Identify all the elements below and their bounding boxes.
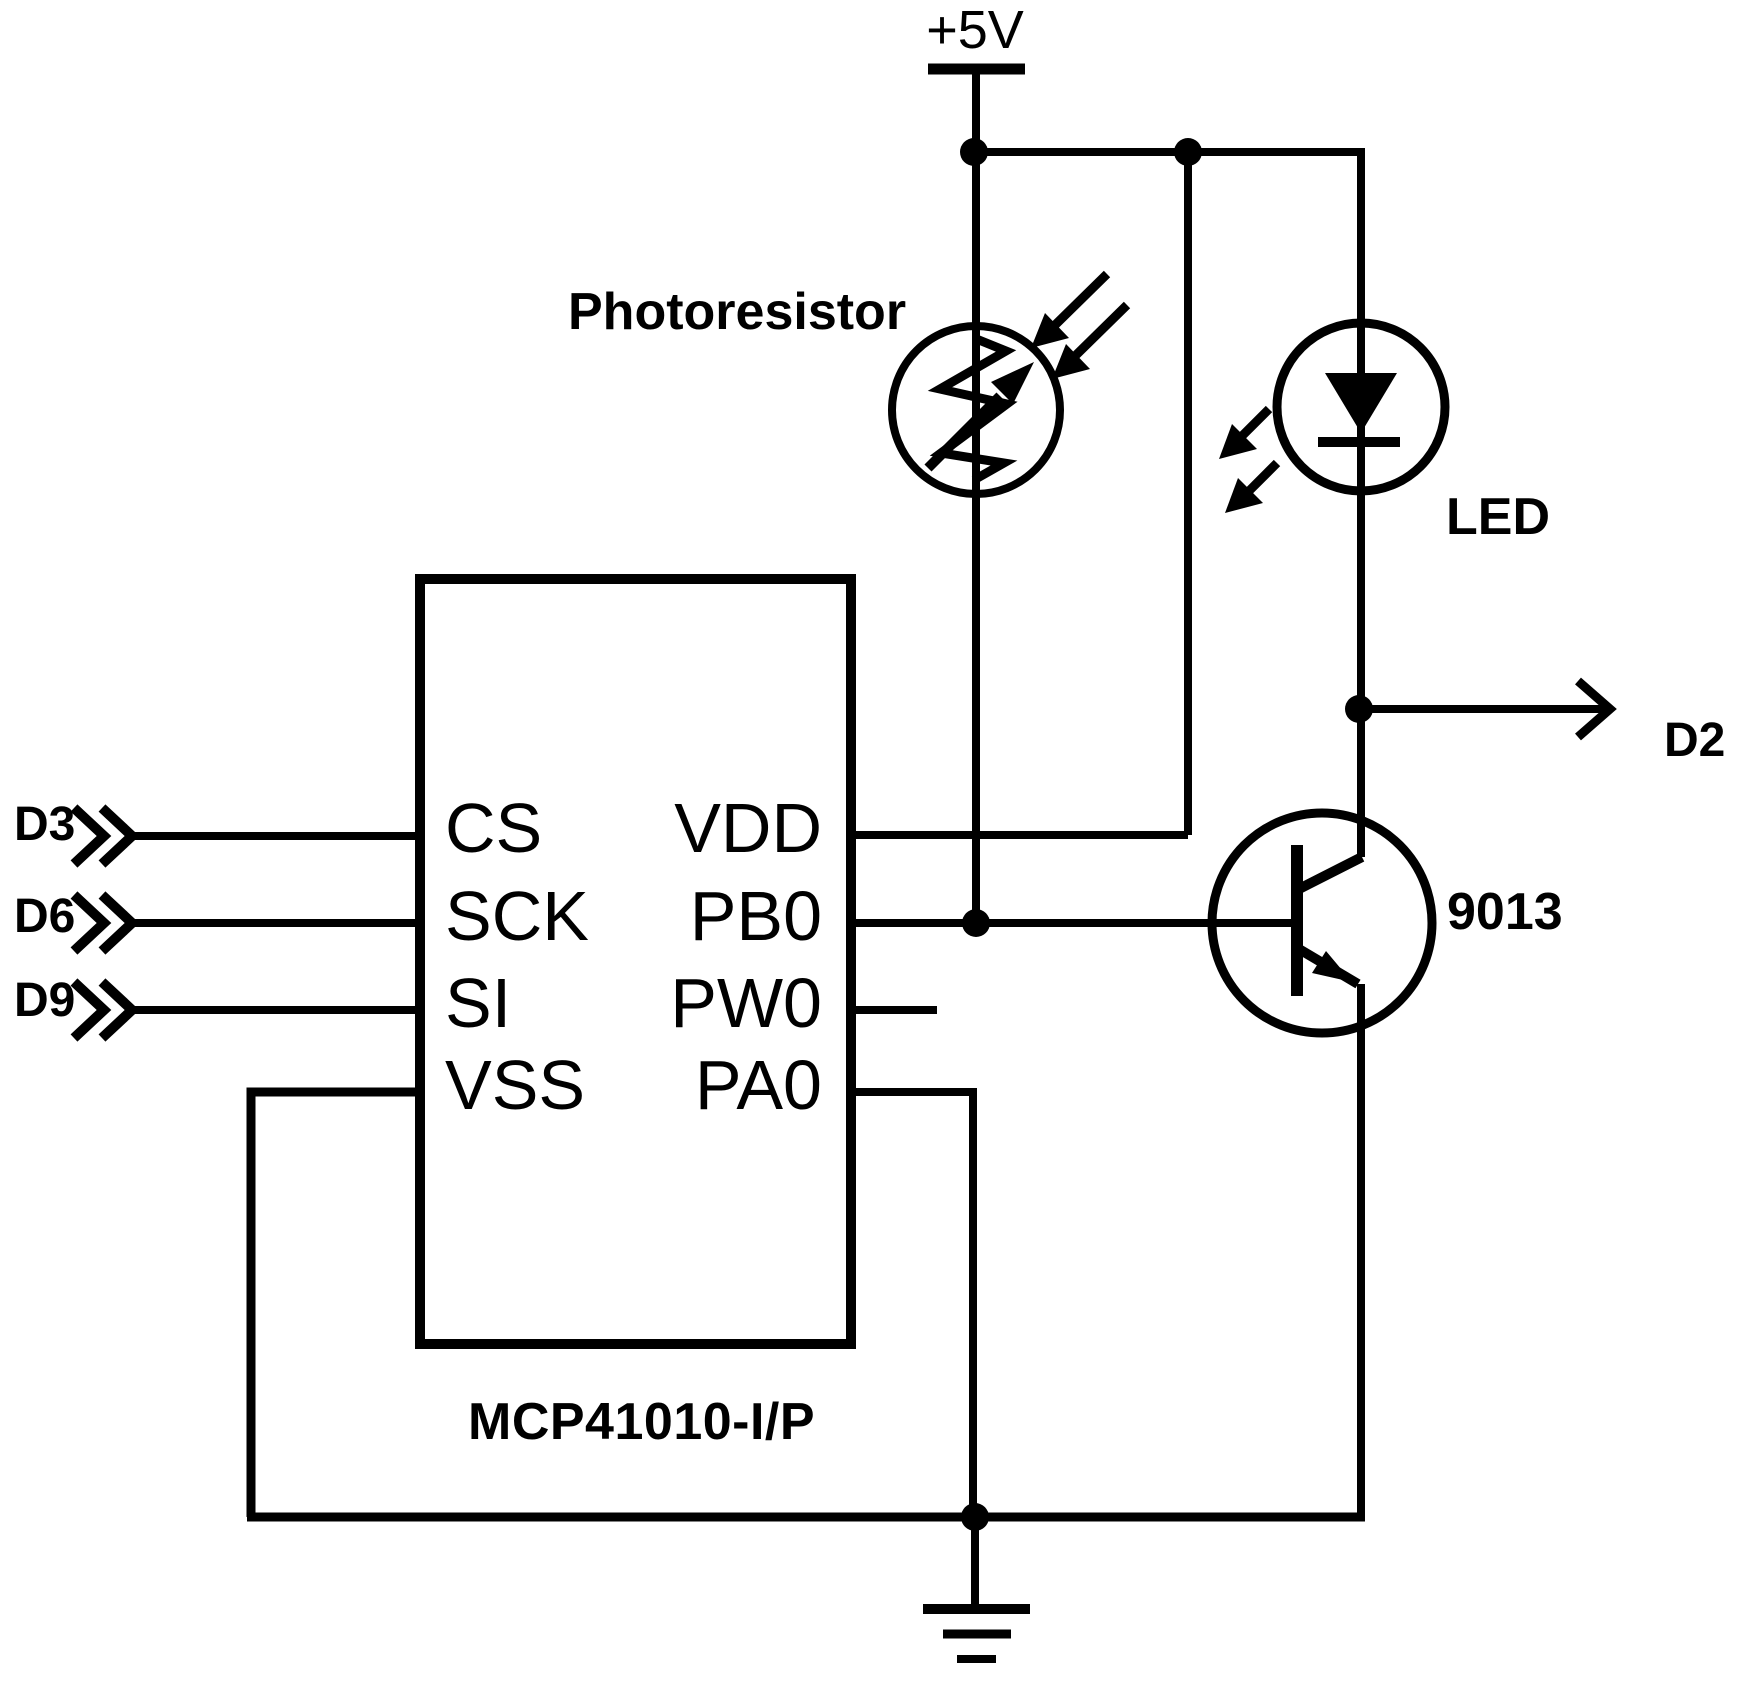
svg-text:VSS: VSS [445, 1046, 585, 1124]
node junction ground [961, 1503, 989, 1531]
svg-text:D6: D6 [14, 890, 75, 943]
LED emission arrow 1 [1219, 409, 1269, 459]
svg-text:9013: 9013 [1447, 883, 1563, 941]
svg-text:PB0: PB0 [690, 877, 822, 955]
svg-text:CS: CS [445, 789, 542, 867]
wire photoresistor vertical [972, 152, 980, 923]
wire SCK input [132, 919, 420, 927]
wire ground rail [247, 1513, 1365, 1522]
wire +5V stub [972, 69, 980, 152]
wire emitter to ground rail [1357, 984, 1365, 1517]
photoresistor light arrow 2 [1052, 305, 1127, 379]
arrowhead D2 [1578, 681, 1610, 737]
wire PA0 down [851, 1092, 973, 1517]
wire CS input [132, 832, 420, 840]
power +5V rail bar [928, 64, 1025, 75]
svg-text:PA0: PA0 [695, 1046, 822, 1124]
wire SI input [132, 1006, 420, 1014]
node junction D2 [1345, 695, 1373, 723]
LED emission arrow 2 [1225, 463, 1277, 513]
svg-text:VDD: VDD [674, 789, 822, 867]
wire VSS to ground rail [251, 1092, 420, 1517]
svg-text:Photoresistor: Photoresistor [568, 283, 906, 341]
wire PB0 to base [851, 919, 1292, 927]
photoresistor R1 [892, 326, 1060, 494]
wire D2 output [1359, 705, 1604, 713]
wire VDD to +5V branch [851, 831, 1188, 839]
transistor Q1 [1212, 813, 1432, 1033]
photoresistor light arrow 1 [1031, 274, 1107, 348]
IC U1 MCP41010 box [420, 579, 851, 1344]
svg-text:D2: D2 [1664, 714, 1725, 767]
node junction A (+5V / photoresistor) [960, 138, 988, 166]
wire LED/collector vertical [1357, 148, 1365, 857]
svg-text:D3: D3 [14, 798, 75, 851]
svg-text:MCP41010-I/P: MCP41010-I/P [468, 1393, 815, 1451]
svg-text:PW0: PW0 [670, 964, 822, 1042]
node junction B (+5V / VDD branch) [1174, 138, 1202, 166]
wire top rail [974, 148, 1361, 156]
wire VDD branch vertical [1184, 152, 1192, 835]
input chevrons D6 [74, 895, 132, 951]
ground symbol [923, 1517, 1030, 1659]
node junction PB0/photoresistor [962, 909, 990, 937]
LED D1 [1277, 323, 1445, 491]
wire PW0 stub [851, 1006, 937, 1014]
svg-text:D9: D9 [14, 974, 75, 1027]
svg-text:+5V: +5V [926, 0, 1024, 60]
svg-text:SI: SI [445, 964, 511, 1042]
svg-text:SCK: SCK [445, 877, 589, 955]
svg-text:LED: LED [1446, 488, 1550, 546]
input chevrons D3 [74, 808, 132, 864]
input chevrons D9 [74, 982, 132, 1038]
